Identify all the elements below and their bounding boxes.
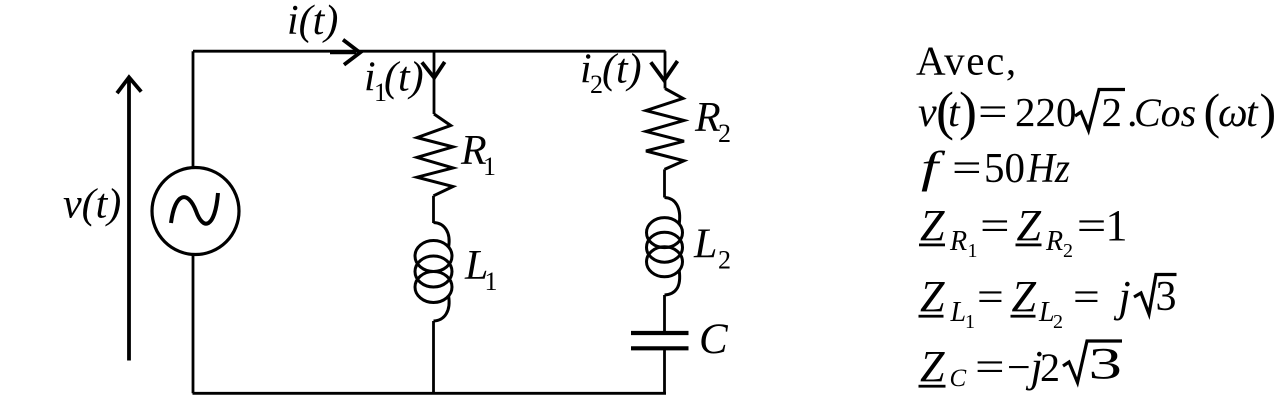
svg-text:Z: Z <box>920 201 945 250</box>
svg-text:1: 1 <box>483 152 496 181</box>
svg-text:−: − <box>1007 345 1031 391</box>
svg-text:2: 2 <box>1063 240 1073 262</box>
svg-text:Z: Z <box>920 272 945 321</box>
svg-text:Hz: Hz <box>1026 146 1070 192</box>
svg-text:=: = <box>952 146 982 192</box>
svg-text:=: = <box>1077 204 1107 250</box>
svg-text:(t): (t) <box>602 47 642 93</box>
svg-text:Z: Z <box>920 342 945 391</box>
svg-text:2: 2 <box>1040 345 1060 390</box>
svg-text:2: 2 <box>1102 89 1123 135</box>
svg-text:C: C <box>699 316 729 363</box>
svg-text:i(t): i(t) <box>287 0 338 44</box>
svg-text:Z: Z <box>1012 272 1037 321</box>
svg-text:1: 1 <box>485 267 498 296</box>
svg-text:R: R <box>949 226 967 257</box>
svg-text:): ) <box>959 81 977 141</box>
svg-text:=: = <box>977 274 1004 321</box>
svg-text:): ) <box>1260 83 1277 139</box>
svg-text:=: = <box>975 345 1005 391</box>
svg-text:2: 2 <box>1053 311 1063 333</box>
svg-text:f: f <box>921 143 946 192</box>
svg-text:220: 220 <box>1015 89 1077 135</box>
svg-text:1: 1 <box>1106 201 1128 250</box>
svg-text:Z: Z <box>1017 201 1042 250</box>
svg-text:R: R <box>1045 226 1063 257</box>
svg-text:j: j <box>1114 272 1131 321</box>
svg-text:1: 1 <box>968 240 978 262</box>
svg-text:v(t): v(t) <box>63 182 121 228</box>
svg-text:3: 3 <box>1089 340 1122 388</box>
svg-text:L: L <box>950 297 967 328</box>
svg-text:2: 2 <box>718 246 731 275</box>
svg-text:L: L <box>693 222 717 268</box>
svg-text:Cos: Cos <box>1134 90 1196 135</box>
svg-text:ω: ω <box>1218 90 1248 136</box>
svg-text:=: = <box>978 90 1008 136</box>
svg-text:C: C <box>950 365 967 392</box>
svg-text:R: R <box>694 95 721 141</box>
svg-text:50: 50 <box>984 146 1025 192</box>
svg-text:v: v <box>918 90 937 136</box>
svg-text:t: t <box>1246 90 1259 136</box>
svg-text:=: = <box>980 204 1010 250</box>
svg-text:2: 2 <box>718 119 731 148</box>
svg-text:3: 3 <box>1156 274 1177 320</box>
svg-text:=: = <box>1073 274 1100 321</box>
svg-text:Avec,: Avec, <box>916 38 1018 84</box>
svg-text:(t): (t) <box>384 55 424 101</box>
svg-text:1: 1 <box>965 311 975 333</box>
